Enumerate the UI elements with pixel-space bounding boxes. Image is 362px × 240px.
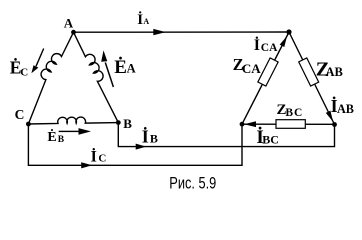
svg-text:B: B [123, 116, 132, 131]
svg-text:B: B [150, 132, 158, 146]
svg-text:C: C [98, 152, 106, 164]
svg-text:Ė: Ė [114, 57, 127, 78]
svg-text:B: B [58, 135, 65, 145]
svg-text:BC: BC [262, 133, 279, 147]
svg-text:İ: İ [142, 127, 149, 147]
svg-text:İ: İ [137, 11, 143, 28]
svg-text:AB: AB [337, 102, 354, 116]
svg-text:BC: BC [285, 107, 303, 119]
svg-text:Рис. 5.9: Рис. 5.9 [169, 174, 216, 192]
svg-text:C: C [15, 107, 25, 122]
svg-text:CA: CA [242, 61, 261, 76]
svg-text:CA: CA [261, 42, 278, 54]
svg-text:İ: İ [254, 35, 260, 54]
svg-text:Ė: Ė [47, 128, 56, 145]
svg-text:İ: İ [91, 146, 97, 165]
svg-text:A: A [127, 62, 136, 76]
svg-text:C: C [20, 67, 28, 79]
svg-text:AB: AB [326, 65, 343, 79]
svg-text:A: A [143, 17, 149, 26]
svg-text:A: A [64, 16, 74, 31]
